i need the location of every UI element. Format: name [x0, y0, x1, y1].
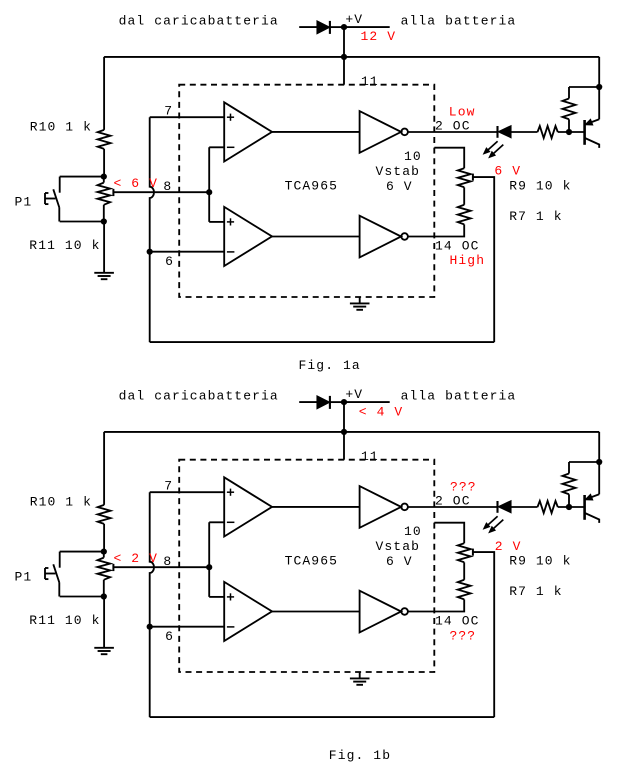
- svg-text:+V: +V: [345, 387, 363, 402]
- wire: pin 7 input to comparator A +: [150, 116, 225, 118]
- svg-text:2 OC: 2 OC: [435, 119, 471, 134]
- wire: LED anode to base resistor: [511, 506, 538, 508]
- inverter/output stage A (open collector, pin 2): [360, 486, 402, 528]
- node: pin 8 / comparator inputs junction: [206, 189, 212, 195]
- transistor Q1 (PNP, emitter to +V): [583, 495, 586, 520]
- svg-text:12 V: 12 V: [361, 29, 397, 44]
- trimmer potentiometer R11 10 k: [103, 177, 105, 183]
- node: Q1 base junction: [566, 504, 572, 510]
- wire: pin 2 output to LED cathode: [408, 131, 497, 133]
- svg-text:TCA965: TCA965: [285, 179, 338, 194]
- wire: base resistor to Q1 base node: [558, 131, 585, 133]
- wire: pin 8 node up to comparator A -: [208, 522, 210, 597]
- svg-text:6: 6: [165, 629, 174, 644]
- wire: pin 8 node down to comparator B +: [209, 596, 224, 598]
- resistor R10 1 k: [98, 130, 111, 149]
- Figure 1b : battery discharged condition: [15, 387, 603, 763]
- wire: +V node to battery stub: [344, 401, 390, 403]
- svg-text:8: 8: [163, 554, 172, 569]
- wire: +V node to battery stub: [344, 26, 390, 28]
- svg-text:R7 1 k: R7 1 k: [509, 209, 562, 224]
- wire: R11 wiper to pin 8: [113, 566, 209, 568]
- wire: R10 to top of trimmer R11: [103, 524, 105, 552]
- svg-text:6 V: 6 V: [494, 164, 521, 179]
- node: R10/R11/P1 junction: [101, 549, 107, 555]
- node: pin 6 junction: [147, 624, 153, 630]
- svg-text:7: 7: [164, 104, 173, 119]
- LED light emission arrows: [486, 141, 498, 152]
- svg-text:8: 8: [163, 179, 172, 194]
- svg-text:14 OC: 14 OC: [435, 238, 480, 253]
- svg-text:11: 11: [361, 449, 379, 464]
- wire: pin 7 / pin 6 vertical sense line (hops over wiper wire): [150, 117, 154, 342]
- pushbutton P1 (parallel with R11): [60, 176, 104, 178]
- diode D1 (series charging diode): [317, 21, 329, 33]
- svg-text:6 V: 6 V: [386, 179, 413, 194]
- IC U1 TCA965 (dashed outline): [179, 460, 434, 672]
- wire: input stub from charger to diode anode: [299, 401, 317, 403]
- resistor R7 1 k: [458, 205, 471, 225]
- wire: pin 10 Vstab to R9 top: [434, 523, 464, 544]
- svg-text:alla batteria: alla batteria: [401, 388, 517, 403]
- wiper of R11: [112, 189, 114, 196]
- inverter/output stage A (open collector, pin 2): [360, 111, 402, 153]
- node: Q1 base junction: [566, 129, 572, 135]
- svg-text:< 2 V: < 2 V: [114, 551, 159, 566]
- wiper of R9: [472, 549, 474, 556]
- resistor (base-emitter pull-up of Q1): [569, 461, 599, 463]
- node: +V rail junction: [341, 54, 347, 60]
- svg-text:7: 7: [164, 479, 173, 494]
- ground (below R11): [103, 222, 105, 273]
- wire: pin 10 Vstab to R9 top: [434, 148, 464, 169]
- wire: +V rail down to Q1 emitter: [598, 432, 600, 494]
- svg-text:???: ???: [450, 479, 477, 494]
- svg-text:Fig. 1a: Fig. 1a: [299, 358, 361, 373]
- transistor Q1 (PNP, emitter to +V): [583, 120, 586, 145]
- svg-text:R11 10 k: R11 10 k: [29, 238, 100, 253]
- wire: R9 to R7: [463, 187, 465, 205]
- potentiometer R9 10 k (threshold set): [458, 168, 471, 187]
- resistor (base-emitter pull-up of Q1): [569, 86, 599, 88]
- svg-text:alla batteria: alla batteria: [401, 13, 517, 28]
- svg-text:Fig. 1b: Fig. 1b: [329, 748, 391, 763]
- node: R11 bottom junction: [101, 218, 107, 224]
- wire: diode cathode to +V node: [330, 26, 344, 28]
- ground (pin GND of U1, below dashed box): [359, 297, 361, 303]
- svg-text:< 6 V: < 6 V: [114, 176, 159, 191]
- wire: R9 wiper to feedback rail: [473, 177, 494, 342]
- ground (pin GND of U1, below dashed box): [359, 672, 361, 678]
- wire: pin 8 node up to comparator A -: [208, 147, 210, 222]
- svg-text:10: 10: [404, 524, 422, 539]
- svg-text:R11 10 k: R11 10 k: [29, 613, 100, 628]
- wire: rail down to R10: [103, 57, 105, 130]
- inverter/output stage B (open collector, pin 14): [360, 216, 402, 258]
- svg-text:Vstab: Vstab: [376, 539, 421, 554]
- wire: +V vertical down to pin 11 of U1: [343, 402, 345, 460]
- svg-text:R10 1 k: R10 1 k: [30, 120, 92, 135]
- node: Q1 emitter / pull-up junction: [596, 459, 602, 465]
- trimmer potentiometer R11 10 k: [103, 552, 105, 558]
- wire: base resistor to Q1 base node: [558, 506, 585, 508]
- wire: R9 to R7: [463, 562, 465, 580]
- wire: +V horizontal supply rail: [104, 56, 599, 58]
- node: pin 6 junction: [147, 249, 153, 255]
- wire: comparator B output to inverter B: [272, 236, 360, 238]
- node: R10/R11/P1 junction: [101, 174, 107, 180]
- potentiometer R9 10 k (threshold set): [458, 543, 471, 562]
- op-amp comparator A (upper, TCA965 upper window comparator): [224, 102, 272, 161]
- pushbutton P1 (parallel with R11): [60, 551, 104, 553]
- node: +V rail junction: [341, 429, 347, 435]
- svg-text:14 OC: 14 OC: [435, 613, 480, 628]
- ground (below R11): [103, 597, 105, 648]
- diode D1 (series charging diode): [317, 396, 329, 408]
- svg-text:dal caricabatteria: dal caricabatteria: [119, 388, 279, 403]
- wiper of R11: [112, 564, 114, 571]
- svg-text:dal caricabatteria: dal caricabatteria: [119, 13, 279, 28]
- wire: rail down to R10: [103, 432, 105, 505]
- wire: R7 bottom to pin 14: [408, 599, 464, 611]
- wire: R10 to top of trimmer R11: [103, 149, 105, 177]
- svg-text:2 OC: 2 OC: [435, 494, 471, 509]
- resistor R7 1 k: [458, 580, 471, 600]
- svg-text:6 V: 6 V: [386, 554, 413, 569]
- node: pin 8 / comparator inputs junction: [206, 564, 212, 570]
- inverter/output stage B (open collector, pin 14): [360, 591, 402, 633]
- svg-text:10: 10: [404, 149, 422, 164]
- wire: comparator A output to inverter A: [272, 506, 360, 508]
- wire: diode cathode to +V node: [330, 401, 344, 403]
- LED light emission arrows: [486, 516, 498, 527]
- wire: +V horizontal supply rail: [104, 431, 599, 433]
- wire: +V vertical down to pin 11 of U1: [343, 27, 345, 85]
- wire: pin 2 output to LED cathode: [408, 506, 497, 508]
- wire: pin 6 input to comparator B -: [150, 626, 225, 628]
- wire: comparator A output to inverter A: [272, 131, 360, 133]
- wire: R9 wiper to feedback rail: [473, 552, 494, 717]
- wire: R7 bottom to pin 14: [408, 224, 464, 236]
- node +V (junction dot): [341, 399, 347, 405]
- svg-text:P1: P1: [15, 570, 33, 585]
- Figure 1a : battery charged condition: [15, 12, 603, 373]
- svg-text:R9 10 k: R9 10 k: [509, 179, 571, 194]
- op-amp comparator B (lower, TCA965 lower window comparator): [224, 582, 272, 641]
- resistor (base series, to Q1 base): [538, 126, 558, 138]
- node: R11 bottom junction: [101, 593, 107, 599]
- svg-text:TCA965: TCA965: [285, 554, 338, 569]
- wire: pin 6 input to comparator B -: [150, 251, 225, 253]
- svg-text:R9 10 k: R9 10 k: [509, 554, 571, 569]
- wire: pin 7 input to comparator A +: [150, 491, 225, 493]
- wire: R11 wiper to pin 8: [113, 191, 209, 193]
- svg-text:+V: +V: [345, 12, 363, 27]
- svg-text:R7 1 k: R7 1 k: [509, 584, 562, 599]
- svg-text:11: 11: [361, 74, 379, 89]
- svg-text:???: ???: [450, 628, 477, 643]
- svg-text:Low: Low: [449, 104, 476, 119]
- node +V (junction dot): [341, 24, 347, 30]
- wire: bottom feedback rail: [150, 341, 495, 343]
- LED D2 (status LED on pin 2): [496, 501, 498, 513]
- wire: +V rail down to Q1 emitter: [598, 57, 600, 119]
- op-amp comparator B (lower, TCA965 lower window comparator): [224, 207, 272, 266]
- wire: pin 8 node down to comparator B +: [209, 221, 224, 223]
- wire: bottom feedback rail: [150, 716, 495, 718]
- LED D2 (status LED on pin 2): [496, 126, 498, 138]
- svg-text:P1: P1: [15, 195, 33, 210]
- IC U1 TCA965 (dashed outline): [179, 85, 434, 297]
- node: Q1 emitter / pull-up junction: [596, 84, 602, 90]
- wire: input stub from charger to diode anode: [299, 26, 317, 28]
- svg-text:High: High: [450, 253, 486, 268]
- resistor R10 1 k: [98, 505, 111, 524]
- resistor (base series, to Q1 base): [538, 501, 558, 513]
- svg-text:2 V: 2 V: [495, 539, 522, 554]
- wiper of R9: [472, 174, 474, 181]
- svg-text:6: 6: [165, 254, 174, 269]
- svg-text:< 4 V: < 4 V: [359, 405, 404, 420]
- svg-text:R10 1 k: R10 1 k: [30, 495, 92, 510]
- wire: pin 7 / pin 6 vertical sense line (hops over wiper wire): [150, 492, 154, 717]
- wire: comparator B output to inverter B: [272, 611, 360, 613]
- svg-text:Vstab: Vstab: [376, 164, 421, 179]
- wire: LED anode to base resistor: [511, 131, 538, 133]
- op-amp comparator A (upper, TCA965 upper window comparator): [224, 477, 272, 536]
